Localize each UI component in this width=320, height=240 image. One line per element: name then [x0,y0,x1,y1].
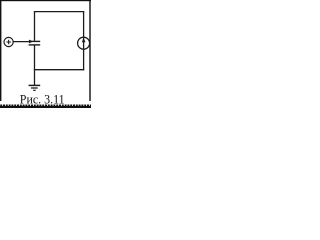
wire left side lower (capacitor to ground) [34,45,36,85]
wire right side of loop [83,11,85,70]
plus sign in source [6,40,10,45]
ground bar 1 [29,84,41,86]
wire left side upper (to capacitor) [34,11,36,41]
page frame left border [0,0,1,101]
ground bar 2 [31,87,38,89]
capacitor C bottom plate [29,44,41,46]
arrowhead on input wire [29,40,33,44]
page frame top border [0,0,91,1]
wire bottom of loop [34,69,84,71]
current source circle I1 [78,37,90,49]
page frame right border [89,0,90,101]
capacitor C top plate [29,40,41,42]
wire top of loop [34,11,84,13]
wavy underline border teeth [0,105,91,107]
wavy underline border base band [0,106,91,108]
ground bar 3 [33,89,36,91]
wire input with arrow [13,41,29,43]
arrowhead in current source [82,38,86,43]
source circle E1 [4,37,13,46]
